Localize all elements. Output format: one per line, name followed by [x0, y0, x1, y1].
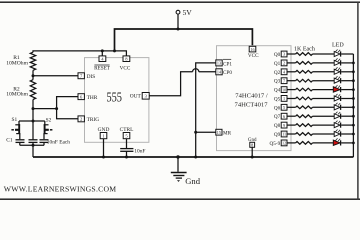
- resistor 1K row Q6: [296, 106, 313, 109]
- pin 11 Q9: [274, 131, 287, 138]
- pin 6 THR: [78, 94, 98, 101]
- junction 5V drop: [113, 49, 116, 52]
- resistor 1K row Q7: [296, 115, 313, 118]
- svg-text:RESET: RESET: [94, 66, 111, 72]
- wire Q5-9 to resistor: [287, 142, 296, 144]
- wire resistor to LED Q7: [313, 115, 335, 117]
- pin 16 VCC (4017): [248, 46, 259, 59]
- wire RESET-VCC supply: [33, 51, 126, 56]
- wire 5V stub: [177, 14, 179, 29]
- wire LED Q1 to rail: [341, 62, 353, 64]
- 5V terminal: [176, 8, 192, 17]
- resistor 1K row Q2: [296, 70, 313, 73]
- svg-text:10: 10: [282, 87, 286, 92]
- pin 3 Q0: [274, 51, 287, 58]
- svg-text:Q2: Q2: [274, 70, 281, 76]
- pin 9 Q8: [274, 122, 287, 129]
- LED D8 (Q7): [334, 111, 341, 118]
- svg-text:74HC4017 /: 74HC4017 /: [235, 93, 268, 100]
- svg-text:Q9: Q9: [274, 132, 281, 138]
- svg-text:S1: S1: [12, 117, 18, 123]
- svg-text:TRIG: TRIG: [87, 117, 100, 123]
- wire DIS: [33, 75, 78, 77]
- svg-text:VCC: VCC: [248, 53, 259, 59]
- junction THR-TRIG: [55, 107, 58, 110]
- junction rail Q8: [352, 124, 355, 127]
- junction rail Q1: [352, 62, 355, 65]
- svg-text:CP0: CP0: [223, 70, 232, 76]
- resistor 1K row Q8: [296, 124, 313, 127]
- pin 8 Gnd (4017): [248, 138, 257, 147]
- touch plate S1: [11, 117, 20, 139]
- junction rail Q5: [352, 97, 355, 100]
- svg-text:S2: S2: [46, 118, 52, 124]
- capacitor C2 (middle): [29, 121, 38, 145]
- wire 4017 Gnd to rail: [251, 147, 253, 157]
- wire GND pin1 to rail: [103, 139, 105, 157]
- LED D11 (Q5-9): [333, 138, 340, 146]
- wire Q4 to resistor: [287, 89, 296, 91]
- resistor 1K row Q9: [296, 133, 313, 136]
- wire LED Q0 to rail: [341, 53, 353, 55]
- pin 1 GND: [98, 127, 110, 139]
- wire OUT to CP0 (with hop): [149, 72, 192, 96]
- wire TRIG: [57, 109, 78, 119]
- svg-text:10MOhm: 10MOhm: [6, 60, 28, 66]
- svg-text:Q8: Q8: [274, 123, 281, 129]
- wire Q7 to resistor: [287, 115, 296, 117]
- svg-text:Q7: Q7: [274, 114, 281, 120]
- pin 5 CTRL: [120, 127, 134, 139]
- pin 3 OUT: [130, 93, 149, 100]
- junction R2-THR-TRIG: [32, 107, 35, 110]
- wire LED Q9 to rail: [341, 133, 353, 135]
- svg-text:Gnd: Gnd: [185, 176, 201, 186]
- junction rail Q5-9: [352, 142, 355, 145]
- wire LED Q3 to rail: [341, 80, 353, 82]
- pin 7 Q3: [274, 78, 287, 85]
- wire LED Q5-9 to rail: [341, 142, 353, 144]
- LED D9 (Q8): [334, 120, 341, 127]
- LED D3 (Q2): [334, 67, 341, 75]
- svg-text:2: 2: [283, 61, 285, 66]
- wire resistor to LED Q4: [313, 89, 335, 91]
- svg-text:C1: C1: [6, 137, 13, 143]
- touch plate S2: [43, 118, 52, 140]
- wire resistor to LED Q9: [313, 133, 335, 135]
- resistor 1K row Q0: [296, 53, 313, 56]
- wire Q0 to resistor: [287, 53, 296, 55]
- svg-text:THR: THR: [87, 95, 98, 101]
- svg-text:VCC: VCC: [120, 66, 131, 72]
- junction rail Q3: [352, 79, 355, 82]
- LED D6 (Q5): [334, 94, 341, 101]
- pin 1 Q5: [274, 96, 287, 103]
- wire caps to ground rail: [32, 145, 34, 157]
- wire resistor to LED Q5-9: [313, 142, 335, 144]
- svg-text:1: 1: [283, 96, 285, 101]
- wire MR to ground vertical: [196, 131, 216, 133]
- svg-text:DIS: DIS: [87, 74, 96, 80]
- pin 7 DIS: [78, 73, 95, 80]
- resistor R1 10MOhm: [6, 52, 36, 75]
- junction 5V rail: [177, 28, 180, 31]
- svg-text:8: 8: [251, 143, 253, 148]
- capacitor C3: [40, 140, 71, 146]
- wire THR: [33, 97, 78, 109]
- svg-text:3: 3: [283, 52, 285, 57]
- wire LED Q4 to rail: [341, 89, 353, 91]
- wire resistor to LED Q5: [313, 98, 335, 100]
- svg-text:Q1: Q1: [274, 61, 281, 67]
- wire Q1 to resistor: [287, 62, 296, 64]
- wire resistor to LED Q8: [313, 124, 335, 126]
- wire Q6 to resistor: [287, 106, 296, 108]
- svg-text:555: 555: [106, 89, 122, 104]
- svg-text:Q0: Q0: [274, 52, 281, 58]
- wire touch rail: [32, 109, 34, 121]
- svg-text:12: 12: [282, 141, 286, 146]
- svg-text:7: 7: [283, 78, 285, 83]
- wire LED cathode rail: [352, 54, 354, 157]
- svg-text:LED: LED: [332, 42, 344, 48]
- wire resistor to LED Q2: [313, 71, 335, 73]
- junction R1-R2-DIS: [32, 74, 35, 77]
- LED D4 (Q3): [334, 76, 341, 84]
- junction pin4 drop: [101, 49, 104, 52]
- junction rail Q9: [352, 133, 355, 136]
- wire 5V rail: [115, 29, 253, 51]
- svg-text:10MOhm: 10MOhm: [6, 92, 28, 98]
- wire ground rail: [33, 156, 353, 158]
- resistor 1K row Q1: [296, 62, 313, 65]
- wire Q8 to resistor: [287, 124, 296, 126]
- svg-text:6: 6: [283, 114, 285, 119]
- resistor 1K row Q5: [296, 97, 313, 100]
- pin 12 Q5-9: [270, 140, 287, 147]
- pin 8 VCC: [120, 56, 131, 72]
- wire resistor to LED Q0: [313, 53, 335, 55]
- svg-text:15: 15: [217, 130, 221, 135]
- wire resistor to LED Q1: [313, 62, 335, 64]
- ground: [171, 157, 201, 186]
- LED D1 (Q0): [334, 49, 341, 57]
- pin 2 Q1: [274, 60, 287, 67]
- pin 2 TRIG: [78, 116, 99, 123]
- LED D2 (Q1): [334, 58, 341, 66]
- svg-text:CP1: CP1: [223, 61, 232, 67]
- wire resistor to LED Q6: [313, 106, 335, 108]
- pin 4 RESET: [94, 56, 111, 72]
- LED D10 (Q9): [334, 129, 341, 136]
- svg-text:OUT: OUT: [130, 94, 142, 100]
- junction rail Q7: [352, 115, 355, 118]
- svg-text:Q4: Q4: [274, 88, 281, 94]
- wire Q5 to resistor: [287, 98, 296, 100]
- svg-text:Q5: Q5: [274, 97, 281, 103]
- wire CP1 to ground vertical: [196, 63, 216, 157]
- svg-text:Q5-9: Q5-9: [270, 141, 281, 147]
- junction rail Q2: [352, 70, 355, 73]
- pin 4 Q2: [274, 69, 287, 76]
- timer U1 555: [85, 58, 149, 143]
- svg-text:1K Each: 1K Each: [294, 46, 315, 52]
- counter U2 74HC4017: [217, 46, 292, 151]
- pin 5 Q6: [274, 104, 287, 111]
- junction rail Q4: [352, 88, 355, 91]
- pin 13 CP1: [216, 59, 233, 67]
- resistor 1K row Q5-9: [296, 142, 313, 145]
- svg-text:10nF: 10nF: [134, 148, 145, 154]
- wire Q9 to resistor: [287, 133, 296, 135]
- svg-text:Q6: Q6: [274, 105, 281, 111]
- svg-text:16: 16: [250, 47, 254, 52]
- svg-text:CTRL: CTRL: [120, 127, 134, 133]
- wire Q3 to resistor: [287, 80, 296, 82]
- junction rail Q6: [352, 106, 355, 109]
- svg-text:Q3: Q3: [274, 79, 281, 85]
- svg-text:MR: MR: [223, 131, 232, 137]
- wire resistor to LED Q3: [313, 80, 335, 82]
- resistor 1K row Q3: [296, 79, 313, 82]
- junction ground: [176, 155, 179, 158]
- pin 10 Q4: [274, 87, 287, 94]
- resistor R2 10MOhm: [6, 76, 36, 109]
- wire caps bottom: [20, 144, 44, 146]
- resistor 1K row Q4: [296, 88, 313, 91]
- pin 6 Q7: [274, 113, 287, 120]
- pin 14 CP0: [216, 69, 233, 76]
- svg-text:9: 9: [283, 123, 285, 128]
- wire LED Q7 to rail: [341, 115, 353, 117]
- wire LED Q5 to rail: [341, 98, 353, 100]
- pin 15 MR: [216, 129, 232, 136]
- svg-text:5V: 5V: [183, 8, 193, 17]
- svg-text:WWW.LEARNERSWINGS.COM: WWW.LEARNERSWINGS.COM: [4, 184, 117, 193]
- svg-text:13: 13: [217, 61, 221, 66]
- LED D5 (Q4): [333, 85, 340, 93]
- svg-text:5: 5: [283, 105, 285, 110]
- svg-text:10nF Each: 10nF Each: [47, 140, 71, 146]
- wire LED Q6 to rail: [341, 106, 353, 108]
- wire Q2 to resistor: [287, 71, 296, 73]
- svg-text:74HCT4017: 74HCT4017: [235, 102, 269, 109]
- capacitor C4 10nF on CTRL: [120, 139, 145, 157]
- svg-text:11: 11: [282, 132, 286, 137]
- wire LED Q2 to rail: [341, 71, 353, 73]
- svg-text:Gnd: Gnd: [248, 138, 257, 143]
- capacitor C1: [6, 137, 24, 145]
- junction touch rail: [32, 120, 35, 123]
- svg-text:GND: GND: [98, 127, 110, 133]
- LED D7 (Q6): [334, 102, 341, 109]
- wire LED Q8 to rail: [341, 124, 353, 126]
